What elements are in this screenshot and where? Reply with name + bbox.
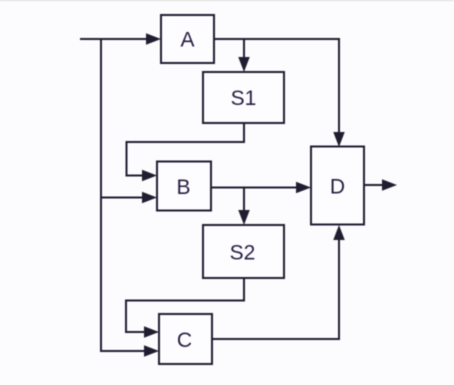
svg-text:A: A [180, 29, 194, 52]
svg-text:C: C [177, 329, 192, 352]
svg-text:S2: S2 [230, 242, 256, 265]
svg-text:B: B [176, 176, 190, 199]
svg-text:S1: S1 [231, 87, 257, 110]
svg-text:D: D [330, 176, 345, 199]
